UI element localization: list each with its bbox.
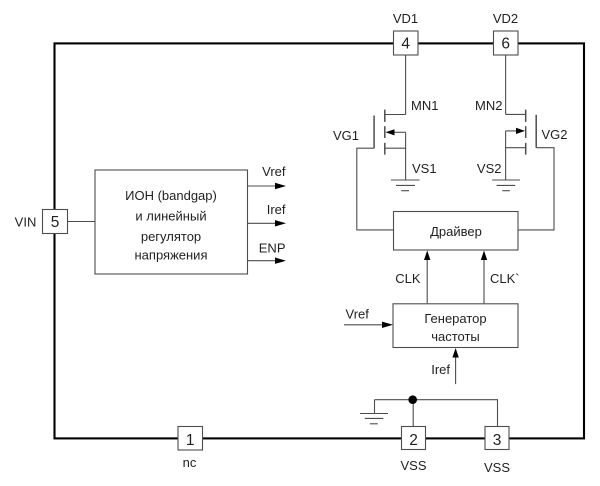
svg-text:VG2: VG2: [542, 127, 568, 142]
svg-text:ИОН (bandgap): ИОН (bandgap): [125, 188, 217, 203]
svg-text:и линейный: и линейный: [135, 208, 206, 223]
svg-text:частоты: частоты: [431, 329, 480, 344]
svg-text:VIN: VIN: [15, 215, 37, 230]
svg-text:5: 5: [51, 214, 60, 231]
svg-text:VD1: VD1: [393, 11, 418, 26]
svg-text:3: 3: [493, 432, 502, 449]
svg-text:nc: nc: [183, 455, 197, 470]
svg-text:CLK: CLK: [395, 271, 421, 286]
svg-text:MN2: MN2: [475, 98, 502, 113]
svg-text:CLK`: CLK`: [490, 271, 520, 286]
svg-text:VD2: VD2: [493, 11, 518, 26]
svg-text:Vref: Vref: [346, 306, 370, 321]
svg-text:ENP: ENP: [259, 240, 286, 255]
svg-text:MN1: MN1: [411, 98, 438, 113]
svg-text:4: 4: [401, 36, 410, 53]
svg-text:VS2: VS2: [477, 161, 502, 176]
svg-text:Iref: Iref: [267, 202, 286, 217]
svg-text:VS1: VS1: [412, 161, 437, 176]
svg-text:VSS: VSS: [484, 460, 510, 475]
svg-text:Драйвер: Драйвер: [430, 224, 482, 239]
svg-text:2: 2: [409, 432, 418, 449]
svg-text:Генератор: Генератор: [424, 311, 486, 326]
svg-text:VG1: VG1: [333, 128, 359, 143]
svg-text:Vref: Vref: [262, 164, 286, 179]
svg-text:VSS: VSS: [400, 458, 426, 473]
svg-text:напряжения: напряжения: [135, 248, 208, 263]
svg-text:6: 6: [501, 36, 510, 53]
svg-text:1: 1: [186, 432, 195, 449]
svg-text:регулятор: регулятор: [141, 229, 201, 244]
svg-text:Iref: Iref: [431, 362, 450, 377]
